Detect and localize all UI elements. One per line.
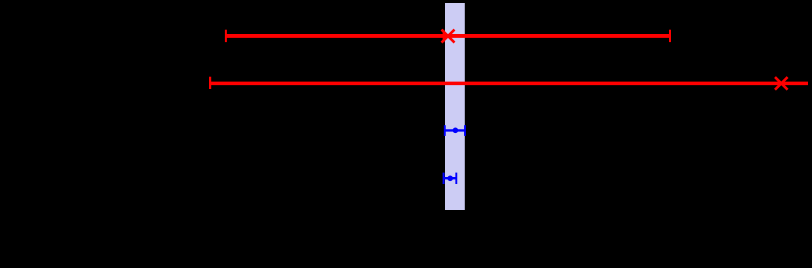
red errorbar row 2: left cap xyxy=(209,77,211,89)
blue errorbar row 3: dot marker xyxy=(453,128,459,134)
blue errorbar row 4: left cap xyxy=(443,173,445,184)
red errorbar row 1: inner tick at band edge xyxy=(443,30,445,42)
red errorbar row 2: horizontal line xyxy=(210,82,808,86)
blue errorbar row 3: right cap xyxy=(464,125,466,136)
red errorbar row 1: x marker xyxy=(442,30,455,43)
red errorbar row 1: left cap xyxy=(225,30,227,42)
blue errorbar row 3: left cap xyxy=(444,125,446,136)
red errorbar row 2: x marker xyxy=(775,77,788,90)
blue errorbar row 4: horizontal line xyxy=(444,177,457,179)
blue errorbar row 3: horizontal line xyxy=(445,129,465,131)
red errorbar row 1: right cap xyxy=(669,30,671,42)
blue errorbar row 4: dot marker xyxy=(447,176,453,182)
red errorbar row 1: horizontal line xyxy=(226,34,670,38)
shaded band (axvspan) xyxy=(445,3,465,210)
blue errorbar row 4: right cap xyxy=(455,173,457,184)
